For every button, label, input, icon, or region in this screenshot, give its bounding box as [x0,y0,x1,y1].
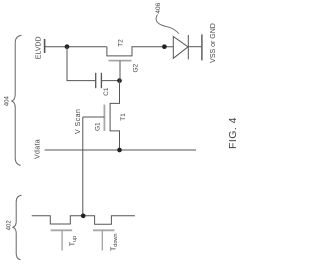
svg-text:VSS or GND: VSS or GND [210,23,217,63]
leader line 406 [156,15,179,34]
svg-text:T1: T1 [120,113,127,121]
brace 402 [13,195,22,259]
node dot OLED anode [162,44,167,49]
svg-text:V Scan: V Scan [75,109,82,134]
node dot at ELVDD rail [65,44,70,49]
brace 404 [11,35,21,165]
svg-text:C1: C1 [103,87,110,96]
OLED cathode bar [187,35,189,59]
node dot VScan to select line [81,213,86,218]
gate lead of Tdown [101,230,103,250]
gate bar of Tdown [93,229,115,231]
svg-text:Vdata: Vdata [34,139,41,159]
svg-text:ELVDD: ELVDD [35,36,42,59]
gate bar of T2 [108,60,131,62]
svg-text:402: 402 [7,220,13,231]
svg-text:FIG. 4: FIG. 4 [227,117,239,149]
transistor T2 channel [107,47,173,56]
net Vdata horizontal wire [45,149,196,151]
terminal ELVDD bar [44,39,46,53]
svg-text:406: 406 [155,2,162,13]
svg-text:T2: T2 [117,39,124,47]
gate lead G2 [119,61,121,81]
gate bar of T1 [103,105,105,131]
svg-text:G1: G1 [95,122,102,131]
OLED diode 406 triangle [173,37,188,59]
net VScan vertical wire [82,117,84,216]
gate bar of Tup [51,229,73,231]
wire ELVDD rail to T2 [45,46,107,48]
node dot T1 source on Vdata [117,148,122,153]
wire G1 gate lead [83,116,105,118]
wire cathode to VSS [188,46,202,48]
bottom select line with Tup and Tdown channels [32,216,135,225]
svg-text:G2: G2 [133,63,140,72]
wire C1 right to gate node [101,80,119,82]
svg-text:404: 404 [5,96,11,107]
node dot gate of T2 / C1 / T1 drain [117,78,122,83]
wire node to C1 left [67,47,96,81]
gate lead of Tup [61,230,63,250]
wire gate node down to T1 drain [110,81,119,150]
capacitor C1 [96,73,102,88]
terminal VSS bar [201,34,203,60]
